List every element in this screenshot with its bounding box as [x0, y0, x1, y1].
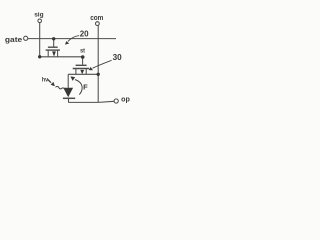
svg-text:F: F: [83, 82, 88, 91]
node dot com-Q30: [97, 73, 100, 76]
terminal op: [114, 99, 118, 103]
svg-text:30: 30: [113, 53, 123, 62]
terminal com: [96, 22, 100, 26]
wire source rail st: [40, 56, 84, 58]
leader arrow 20: [65, 36, 79, 45]
light arrow hv 1: [48, 80, 55, 87]
wire bottom rail to op: [68, 101, 98, 103]
wire sig vertical: [39, 23, 41, 57]
node dot gate-Q20: [52, 37, 55, 40]
svg-text:sig: sig: [34, 12, 43, 19]
wire gate rail: [28, 38, 116, 40]
wire com vertical: [97, 25, 99, 102]
svg-text:op: op: [121, 97, 130, 104]
svg-text:20: 20: [80, 30, 89, 39]
node dot sig-rail: [38, 55, 41, 58]
transistor Q20: [46, 39, 60, 57]
svg-text:gate: gate: [5, 35, 22, 44]
leader arrow 30: [89, 60, 112, 70]
photodiode F: [63, 74, 75, 102]
terminal gate: [24, 36, 28, 40]
svg-text:com: com: [90, 15, 103, 22]
terminal sig: [38, 19, 42, 23]
leader arrow F: [70, 76, 82, 94]
light arrow hv 2 (wave): [56, 86, 67, 90]
transistor Q30: [68, 57, 98, 75]
svg-text:hν: hν: [42, 76, 49, 83]
node dot st: [81, 55, 85, 59]
svg-text:st: st: [80, 47, 85, 54]
